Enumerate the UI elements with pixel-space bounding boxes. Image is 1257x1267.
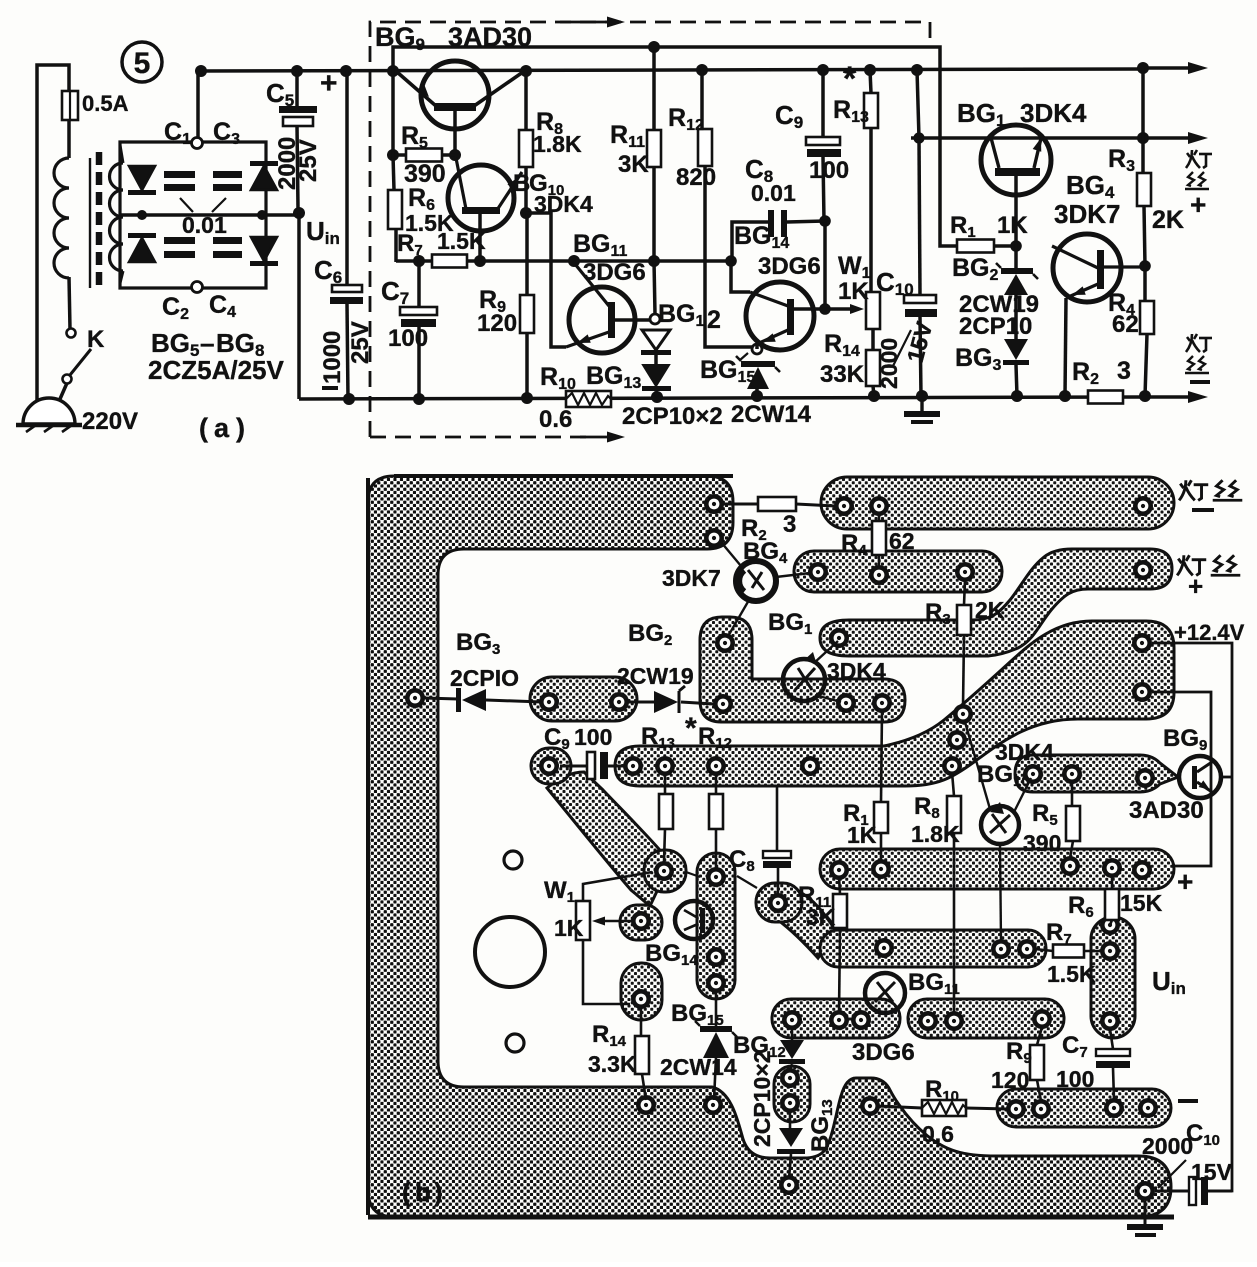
svg-text:62: 62 bbox=[889, 528, 915, 554]
resistor R12 820 bbox=[700, 70, 704, 129]
svg-text:15V: 15V bbox=[1191, 1159, 1233, 1185]
arrow 12V output bbox=[1188, 132, 1208, 144]
fuse 0.5A bbox=[62, 91, 78, 120]
trace island notch oval bbox=[774, 1066, 810, 1122]
svg-text:1K: 1K bbox=[554, 915, 584, 941]
capacitor C7 100 bbox=[417, 261, 421, 307]
wire switch to plug bbox=[60, 383, 67, 399]
trace 3DG6 left bar bbox=[772, 999, 900, 1038]
svg-text:62: 62 bbox=[1112, 311, 1139, 338]
transistor BG14 3DG6 bbox=[731, 261, 750, 292]
svg-text:3DK4: 3DK4 bbox=[1020, 98, 1087, 128]
pad left bar bbox=[405, 688, 425, 708]
svg-text:3DK7: 3DK7 bbox=[662, 565, 721, 591]
svg-text:3DG6: 3DG6 bbox=[852, 1039, 915, 1066]
svg-text:820: 820 bbox=[676, 164, 716, 191]
pad ground BG13 bbox=[779, 1175, 799, 1195]
bridge mid wire to Uin node bbox=[120, 213, 299, 217]
switch K bbox=[69, 277, 70, 329]
resistor R4 62 bbox=[1143, 266, 1147, 301]
resistor R6 1.5K bbox=[393, 155, 394, 190]
svg-text:2CP10: 2CP10 bbox=[959, 313, 1032, 340]
svg-text:1000: 1000 bbox=[319, 331, 346, 384]
svg-text:1K: 1K bbox=[997, 212, 1028, 239]
diode BG3 on pcb bbox=[424, 698, 458, 699]
resistor R7 on pcb bbox=[1035, 949, 1053, 951]
resistor R7 bbox=[432, 255, 467, 268]
wire +12.4V rail y138 bbox=[911, 136, 1196, 140]
transistor BG11 on pcb bbox=[865, 973, 905, 1013]
pcb board top edge bbox=[394, 474, 733, 478]
capacitor C10 on pcb bbox=[1155, 1190, 1196, 1193]
svg-text:): ) bbox=[236, 413, 245, 443]
transistor BG9 bbox=[421, 61, 489, 129]
hole small upper bbox=[504, 851, 522, 869]
trace 3DG6 right bar bbox=[908, 999, 1064, 1038]
transistor BG14 on pcb bbox=[675, 901, 713, 939]
svg-text:*: * bbox=[685, 712, 697, 745]
resistor R8 on pcb bbox=[952, 772, 954, 796]
bridge terminal bottom bbox=[192, 282, 203, 293]
diode BG6 bottom-left bbox=[128, 233, 156, 238]
trace plus bar bbox=[820, 849, 1174, 889]
svg-text:0.5A: 0.5A bbox=[82, 91, 129, 116]
wire BG10 leads bbox=[965, 722, 990, 809]
resistor R13 star bbox=[870, 70, 871, 93]
svg-text:+: + bbox=[320, 67, 338, 100]
pcb board left edge bbox=[366, 478, 370, 1215]
transistor BG10 3DK4 bbox=[448, 165, 514, 231]
svg-text:+: + bbox=[1177, 866, 1193, 897]
diode BG7 top-right bbox=[250, 161, 278, 166]
capacitor C5 bbox=[295, 71, 299, 106]
trace filament plus left bar bbox=[794, 551, 1002, 592]
trace BG2 L blob bbox=[700, 617, 905, 722]
label filament minus pcb bbox=[1179, 480, 1242, 500]
transistor BG9 on pcb bbox=[1179, 756, 1221, 798]
svg-text:2000: 2000 bbox=[876, 338, 902, 389]
svg-text:3DK7: 3DK7 bbox=[1054, 199, 1120, 229]
svg-text:2CW14: 2CW14 bbox=[660, 1054, 737, 1080]
bridge rectifier outline bbox=[120, 142, 266, 288]
thin line tallblob to C8blob bbox=[737, 876, 757, 888]
trace R7 bar bbox=[820, 930, 1046, 967]
transistor BG11 3DG6 bbox=[569, 287, 635, 353]
svg-text:a: a bbox=[214, 413, 230, 443]
resistor R10 0.6 bbox=[566, 391, 611, 407]
wire base rail y261 bbox=[396, 259, 731, 263]
wire mains left loop bbox=[37, 65, 69, 400]
svg-text:1.8K: 1.8K bbox=[533, 131, 582, 157]
wire secondary to bridge bbox=[120, 145, 123, 163]
circled figure number 5 bbox=[122, 42, 162, 82]
wire second output to plus bar bbox=[1152, 692, 1211, 866]
capacitor C4 bbox=[213, 237, 242, 244]
svg-text:2CZ5A/25V: 2CZ5A/25V bbox=[148, 355, 284, 385]
diode BG12 on pcb bbox=[791, 1029, 794, 1040]
diode BG5 top-left bbox=[129, 166, 155, 190]
svg-text:–: – bbox=[200, 328, 214, 358]
thin line R13blob to tallblob bbox=[686, 872, 700, 877]
svg-text:+: + bbox=[1190, 189, 1206, 220]
svg-text:33K: 33K bbox=[820, 361, 865, 388]
wire top rail bbox=[197, 69, 1148, 71]
svg-text:2000: 2000 bbox=[1142, 1133, 1193, 1159]
resistor R12 on pcb bbox=[715, 775, 718, 794]
transistor BG1 3DK4 bbox=[981, 125, 1051, 195]
svg-text:3K: 3K bbox=[618, 151, 649, 178]
trace R14 top blob bbox=[621, 963, 662, 1020]
wire BG9 emitter to vertical bbox=[1221, 776, 1232, 779]
transistor BG1 on pcb bbox=[783, 659, 825, 701]
node bottom rail junctions bbox=[343, 393, 355, 405]
transistor BG4 3DK7 bbox=[1053, 234, 1121, 302]
svg-text:0.01: 0.01 bbox=[751, 180, 796, 206]
wire fuse to primary bbox=[67, 120, 71, 158]
bridge terminal top bbox=[192, 138, 203, 149]
svg-text:2CW19: 2CW19 bbox=[617, 663, 694, 689]
resistor R4 on pcb bbox=[878, 514, 881, 521]
svg-text:100: 100 bbox=[574, 724, 612, 750]
wire BG11 base to BG12 bbox=[615, 318, 650, 322]
wire R11 lower to node bbox=[652, 167, 656, 261]
trace C8 blob with tail bbox=[778, 890, 836, 958]
arrow W1 wiper pcb bbox=[600, 920, 634, 923]
svg-text:390: 390 bbox=[1023, 830, 1061, 856]
capacitor C10 2000/15V bbox=[917, 70, 919, 138]
svg-text:3: 3 bbox=[1117, 357, 1131, 385]
node C8 junction bbox=[819, 215, 831, 227]
capacitor C2 bbox=[164, 237, 195, 244]
svg-text:1.8K: 1.8K bbox=[911, 821, 960, 847]
svg-text:b: b bbox=[415, 1177, 431, 1207]
svg-text:3DG6: 3DG6 bbox=[758, 253, 821, 280]
wire Uin vertical bbox=[297, 213, 301, 399]
pad ground C10 bbox=[1135, 1181, 1155, 1201]
trace C9 left blob with funnel bbox=[547, 772, 666, 906]
transformer T1 primary winding bbox=[54, 158, 69, 278]
pad top bar 2 bbox=[704, 528, 724, 548]
resistor R11 on pcb bbox=[839, 877, 840, 894]
pad ground R14 bbox=[636, 1095, 656, 1115]
resistor R11 3K bbox=[652, 47, 656, 130]
svg-text:3.3K: 3.3K bbox=[588, 1051, 637, 1077]
svg-text:5: 5 bbox=[134, 47, 151, 80]
svg-text:2CP10×2: 2CP10×2 bbox=[749, 1050, 775, 1147]
pad ground R10 bbox=[860, 1096, 880, 1116]
trace filament plus right with s-bend to 3DK4 trace bbox=[820, 549, 1172, 656]
capacitor C1 bbox=[164, 171, 195, 178]
trace minus bar bottom bbox=[997, 1089, 1171, 1127]
wire +12.4V output bbox=[1152, 643, 1232, 1191]
label filament top schematic bbox=[1185, 150, 1212, 189]
resistor R2 on pcb bbox=[723, 503, 758, 506]
arrow wiper W1 bbox=[825, 307, 855, 311]
svg-text:+: + bbox=[1188, 571, 1203, 601]
capacitor C8 on pcb bbox=[776, 786, 779, 851]
label filament plus pcb bbox=[1177, 555, 1240, 575]
node Uin junction bbox=[293, 207, 305, 219]
pad ground BG15 bbox=[703, 1095, 723, 1115]
resistor R9 120 bbox=[520, 295, 534, 333]
potentiometer W1 1K bbox=[866, 292, 880, 329]
pcb board bottom edge bbox=[368, 1215, 1174, 1220]
wire BG9 base down bbox=[453, 111, 457, 155]
trace BG3 oval bbox=[530, 677, 637, 721]
arrow dashed top bbox=[607, 17, 625, 28]
svg-text:100: 100 bbox=[388, 325, 428, 352]
hole small lower bbox=[506, 1034, 524, 1052]
resistor R13 on pcb bbox=[664, 775, 667, 794]
diode BG13 on pcb bbox=[789, 1110, 792, 1128]
svg-text:0.6: 0.6 bbox=[922, 1121, 954, 1147]
wire BG11 collector branch bbox=[526, 213, 566, 347]
trace W1 wiper blob bbox=[620, 905, 662, 940]
trace R13 R12 bar rising to +12.4V blob bbox=[615, 621, 1174, 786]
svg-text:2K: 2K bbox=[1152, 206, 1184, 234]
capacitor C9 on pcb bbox=[560, 765, 587, 768]
svg-text:3AD30: 3AD30 bbox=[1129, 797, 1204, 824]
svg-text:K: K bbox=[87, 326, 105, 353]
zener BG15 on pcb bbox=[715, 992, 718, 1028]
resistor R1 1K bbox=[957, 240, 994, 253]
svg-text:100: 100 bbox=[809, 157, 849, 184]
resistor R14 on pcb bbox=[640, 1008, 643, 1036]
capacitor C7 on pcb bbox=[1110, 1029, 1113, 1049]
zener BG2 2CW19 2CP10 bbox=[1014, 246, 1018, 271]
label filament bottom schematic bbox=[1185, 334, 1212, 373]
diode BG2 on pcb bbox=[627, 701, 654, 704]
resistor R3 on pcb bbox=[964, 580, 965, 605]
svg-text:120: 120 bbox=[477, 310, 517, 337]
trace R13 bottom pad blob bbox=[644, 850, 686, 892]
ground symbol pcb bbox=[1144, 1201, 1147, 1224]
resistor R9 on pcb bbox=[1037, 1027, 1042, 1045]
potentiometer W1 on pcb bbox=[583, 872, 652, 901]
node top rail junctions bbox=[195, 65, 207, 77]
svg-text:15K: 15K bbox=[1120, 890, 1163, 916]
resistor R5 on pcb bbox=[1071, 782, 1074, 806]
resistor R3 2K bbox=[1141, 138, 1145, 173]
svg-text:100: 100 bbox=[1056, 1066, 1094, 1092]
capacitor C9 100 bbox=[821, 70, 825, 137]
pcb ground plane and frame copper bbox=[368, 476, 1171, 1217]
svg-text:2CP10×2: 2CP10×2 bbox=[622, 403, 723, 430]
wire BG10 emitter down bbox=[478, 214, 482, 261]
svg-text:1K: 1K bbox=[847, 822, 877, 848]
capacitor C6 bbox=[345, 71, 349, 285]
arrow dashed bottom bbox=[607, 432, 625, 443]
svg-text:(: ( bbox=[402, 1177, 411, 1207]
wire BG1 to pads bbox=[814, 641, 838, 663]
zener BG15 bbox=[741, 361, 775, 367]
svg-text:5: 5 bbox=[419, 135, 428, 152]
resistor R6 on pcb bbox=[1111, 877, 1114, 889]
svg-text:0.6: 0.6 bbox=[539, 406, 572, 433]
wire collector line y47 bbox=[393, 47, 957, 246]
pad top bar 1 bbox=[704, 494, 724, 514]
mains plug 220V bbox=[23, 398, 75, 424]
wire bottom rail bbox=[299, 397, 1148, 399]
diode BG3 bbox=[1004, 339, 1028, 360]
trace BG15 tall blob bbox=[697, 853, 735, 999]
svg-text:2: 2 bbox=[707, 306, 721, 334]
svg-text:R: R bbox=[401, 122, 419, 150]
wire C9 to wiper node bbox=[823, 221, 827, 309]
trace Uin oval bbox=[1091, 917, 1135, 1038]
svg-text:3DG6: 3DG6 bbox=[583, 259, 646, 286]
label minus at bar bbox=[1178, 1099, 1198, 1103]
capacitor C8 0.01 bbox=[732, 222, 768, 261]
transformer T1 secondary winding bbox=[110, 163, 123, 271]
transistor BG10 on pcb bbox=[981, 806, 1019, 844]
svg-text:120: 120 bbox=[991, 1067, 1029, 1093]
svg-text:3K: 3K bbox=[806, 904, 836, 930]
svg-text:0.01: 0.01 bbox=[182, 212, 227, 238]
svg-text:3DK4: 3DK4 bbox=[827, 658, 886, 684]
svg-text:(: ( bbox=[199, 413, 208, 443]
hole big left bbox=[475, 917, 545, 987]
resistor R14 33K bbox=[871, 329, 875, 350]
svg-text:2CPIO: 2CPIO bbox=[450, 665, 519, 691]
wire R5 left vertical bbox=[391, 71, 395, 155]
svg-text:2K: 2K bbox=[975, 597, 1005, 623]
resistor R1 on pcb bbox=[881, 710, 882, 802]
dashed box regulator module bbox=[370, 22, 930, 437]
transformer core bbox=[89, 158, 91, 288]
resistor R2 3 bbox=[1088, 391, 1123, 404]
node base rail end bbox=[725, 255, 737, 267]
trace 3AD30 base bar bbox=[1015, 755, 1178, 792]
wire bridge riser to top rail bbox=[196, 71, 200, 138]
diode BG12 bbox=[642, 330, 670, 350]
diode BG8 bottom-right bbox=[251, 237, 277, 261]
capacitor C3 bbox=[213, 171, 242, 178]
resistor R8 1.8K bbox=[524, 71, 528, 130]
resistor R10 on pcb bbox=[878, 1106, 922, 1108]
transistor BG4 on pcb bbox=[736, 561, 776, 601]
svg-text:3: 3 bbox=[783, 511, 796, 538]
ground symbol main bbox=[920, 399, 923, 411]
diode BG13 bbox=[654, 355, 658, 365]
svg-text:): ) bbox=[434, 1177, 443, 1207]
wire BG14 collector to wiper bbox=[794, 307, 825, 311]
svg-text:2CW14: 2CW14 bbox=[731, 401, 812, 428]
label - at C6 bbox=[322, 386, 338, 390]
svg-text:*: * bbox=[843, 60, 857, 98]
svg-text:1.5K: 1.5K bbox=[1047, 961, 1096, 987]
svg-text:+12.4V: +12.4V bbox=[1174, 620, 1245, 645]
wire x1143 link bbox=[1141, 68, 1145, 138]
svg-text:220V: 220V bbox=[82, 408, 138, 435]
wire BG4 to pads bbox=[721, 542, 741, 566]
svg-text:25V: 25V bbox=[295, 139, 322, 182]
svg-text:1K: 1K bbox=[838, 278, 869, 305]
trace filament minus bar bbox=[821, 477, 1174, 529]
arrow bottom rail output bbox=[1148, 395, 1196, 399]
arrow top rail output bbox=[1148, 66, 1196, 70]
resistor R5 390 bbox=[387, 149, 399, 161]
